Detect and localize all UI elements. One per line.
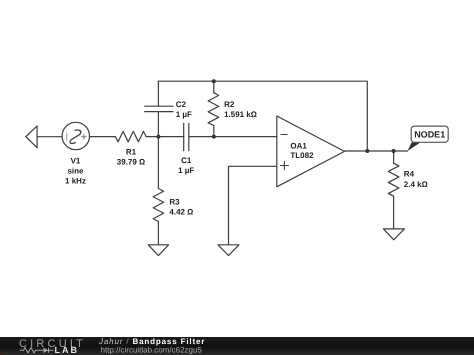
ground at op-amp non-inverting input xyxy=(218,245,239,256)
logo resistor-diode glyph xyxy=(20,348,54,353)
svg-text:2.4 kΩ: 2.4 kΩ xyxy=(404,180,428,189)
resistor R1 xyxy=(90,131,159,141)
svg-text:R3: R3 xyxy=(169,197,180,206)
svg-text:4.42 Ω: 4.42 Ω xyxy=(169,207,193,216)
op-amp OA1 xyxy=(277,116,345,187)
node junction J2 xyxy=(212,135,216,139)
wire: J1 down to R3 xyxy=(157,137,159,189)
resistor R2 xyxy=(208,81,219,136)
label R1 value xyxy=(117,148,145,167)
svg-text:R2: R2 xyxy=(224,100,235,109)
resistor R3 xyxy=(153,189,164,245)
label R4 value xyxy=(404,170,428,189)
svg-text:sine: sine xyxy=(67,167,84,176)
net flag NODE1 xyxy=(408,126,449,151)
label R3 value xyxy=(169,197,193,216)
svg-text:TL082: TL082 xyxy=(290,151,314,160)
svg-text:OA1: OA1 xyxy=(290,141,307,150)
label R2 value xyxy=(224,100,257,119)
ground below R4 xyxy=(383,229,404,240)
footer bar xyxy=(0,337,474,355)
svg-text:C1: C1 xyxy=(181,156,192,165)
svg-text:39.79 Ω: 39.79 Ω xyxy=(117,158,145,167)
resistor R4 xyxy=(388,151,399,229)
node junction J3 feedback tap xyxy=(365,149,369,153)
bottom-left corner artifact xyxy=(0,352,3,355)
capacitor C2 xyxy=(145,106,173,111)
wire: junction J1 to C1 xyxy=(158,136,183,138)
label C2 value xyxy=(176,100,192,119)
output wire xyxy=(345,150,408,152)
wire: input arrow to V1 xyxy=(37,136,62,138)
svg-text:R4: R4 xyxy=(404,170,415,179)
svg-text:LAB: LAB xyxy=(55,345,80,355)
svg-text:V1: V1 xyxy=(71,157,81,166)
svg-text:C2: C2 xyxy=(176,100,187,109)
input terminal arrow xyxy=(26,126,37,148)
wire: junction J2 to op-amp inverting input xyxy=(214,136,277,138)
ground below R3 xyxy=(148,245,168,256)
top feedback wire xyxy=(158,81,367,151)
svg-text:1 µF: 1 µF xyxy=(176,110,192,119)
node junction J1 xyxy=(156,135,160,139)
wire: C2 up to feedback wire xyxy=(157,81,159,106)
svg-text:NODE1: NODE1 xyxy=(414,130,445,140)
node junction J4 R4 tap xyxy=(392,149,396,153)
voltage source V1 xyxy=(62,122,89,149)
wire: op-amp non-inverting input to ground leg xyxy=(229,166,277,244)
label OA1 part number xyxy=(290,141,314,160)
svg-text:1.591 kΩ: 1.591 kΩ xyxy=(224,110,257,119)
label C1 value xyxy=(178,156,194,175)
node junction at R2 top xyxy=(212,79,216,83)
wire: J1 up to C2 xyxy=(157,112,159,137)
capacitor C1 xyxy=(184,123,214,150)
svg-text:R1: R1 xyxy=(126,148,137,157)
label V1 value xyxy=(65,157,86,186)
svg-text:1 kHz: 1 kHz xyxy=(65,177,86,186)
svg-text:http://circuitlab.com/c62zgu5: http://circuitlab.com/c62zgu5 xyxy=(101,345,203,354)
svg-text:1 µF: 1 µF xyxy=(178,166,194,175)
